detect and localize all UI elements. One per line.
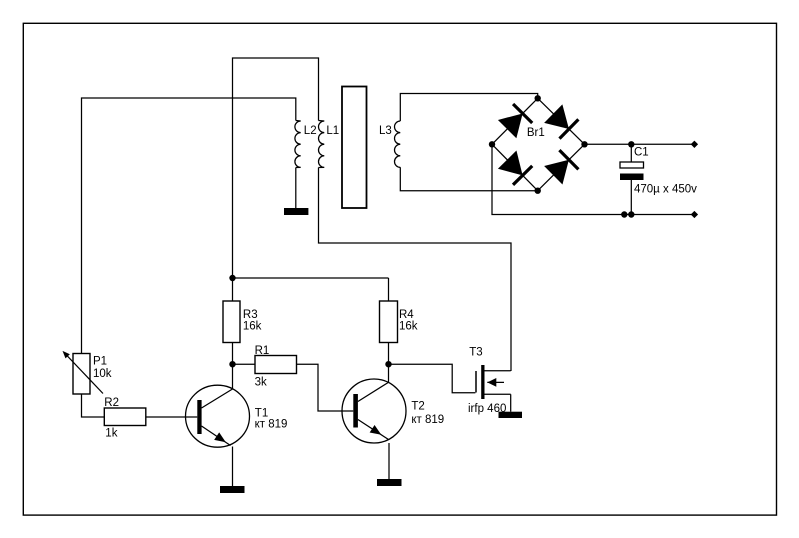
svg-text:16k: 16k — [399, 321, 418, 333]
diode Br1 top-left — [498, 103, 534, 139]
svg-text:L2: L2 — [304, 125, 317, 137]
svg-text:кт 819: кт 819 — [411, 414, 444, 426]
terminal minus — [691, 211, 698, 218]
node C1 top — [628, 141, 634, 147]
wire — [510, 394, 512, 411]
svg-text:T1: T1 — [255, 407, 268, 419]
node bridge right — [581, 141, 587, 147]
resistor R2 — [104, 397, 146, 439]
mosfet T3 — [468, 347, 511, 416]
wire — [232, 447, 234, 487]
svg-text:470µ x 450v: 470µ x 450v — [634, 184, 697, 196]
ground — [499, 412, 523, 418]
resistor R1 — [255, 345, 297, 389]
svg-text:L3: L3 — [379, 125, 392, 137]
inductor L1 — [318, 121, 339, 168]
wire — [492, 144, 694, 214]
node — [621, 211, 627, 217]
transistor T1 — [186, 385, 288, 447]
wire — [82, 98, 296, 354]
node — [229, 275, 235, 281]
inductor L2 — [295, 121, 317, 168]
transformer core — [342, 87, 367, 209]
wire — [146, 416, 198, 418]
wire — [233, 363, 256, 365]
diode Br1 top-right — [544, 104, 580, 140]
wire — [319, 168, 512, 372]
svg-text:C1: C1 — [634, 147, 649, 159]
terminal plus — [691, 141, 698, 148]
ground — [284, 208, 308, 215]
node — [385, 361, 391, 367]
svg-text:T3: T3 — [469, 347, 482, 359]
transistor T2 — [342, 379, 444, 443]
wire — [585, 143, 695, 145]
capacitor C1 — [620, 144, 697, 214]
wire — [232, 343, 234, 390]
svg-text:3k: 3k — [255, 377, 267, 389]
svg-text:кт 819: кт 819 — [255, 419, 288, 431]
wire — [388, 343, 390, 383]
wire — [297, 364, 354, 411]
ground — [377, 479, 402, 486]
svg-text:P1: P1 — [93, 356, 107, 368]
bridge Br1 — [489, 95, 588, 194]
resistor R3 — [223, 278, 262, 343]
svg-text:R3: R3 — [243, 309, 258, 321]
wire — [400, 94, 537, 122]
diode Br1 bottom-left — [498, 150, 534, 186]
resistor R4 — [380, 278, 418, 343]
svg-text:R1: R1 — [255, 345, 270, 357]
node bridge top — [535, 95, 541, 101]
wire — [388, 443, 390, 479]
svg-text:1k: 1k — [105, 427, 117, 439]
wire — [233, 277, 389, 279]
wire — [233, 58, 319, 278]
svg-text:R2: R2 — [104, 397, 119, 409]
wire — [82, 394, 105, 417]
wire — [400, 167, 537, 190]
node C1 bottom — [628, 211, 634, 217]
wire — [295, 168, 297, 209]
inductor L3 — [379, 121, 400, 167]
node bridge bottom — [535, 188, 541, 194]
svg-text:R4: R4 — [399, 309, 414, 321]
wire — [389, 364, 476, 393]
diode Br1 bottom-right — [544, 149, 580, 185]
svg-text:Br1: Br1 — [527, 127, 545, 139]
node bridge left — [489, 141, 495, 147]
svg-text:16k: 16k — [243, 321, 262, 333]
node — [229, 361, 235, 367]
svg-text:T2: T2 — [411, 401, 424, 413]
svg-text:10k: 10k — [93, 368, 112, 380]
svg-text:L1: L1 — [326, 125, 339, 137]
ground — [220, 486, 245, 493]
potentiometer P1 — [60, 349, 111, 394]
